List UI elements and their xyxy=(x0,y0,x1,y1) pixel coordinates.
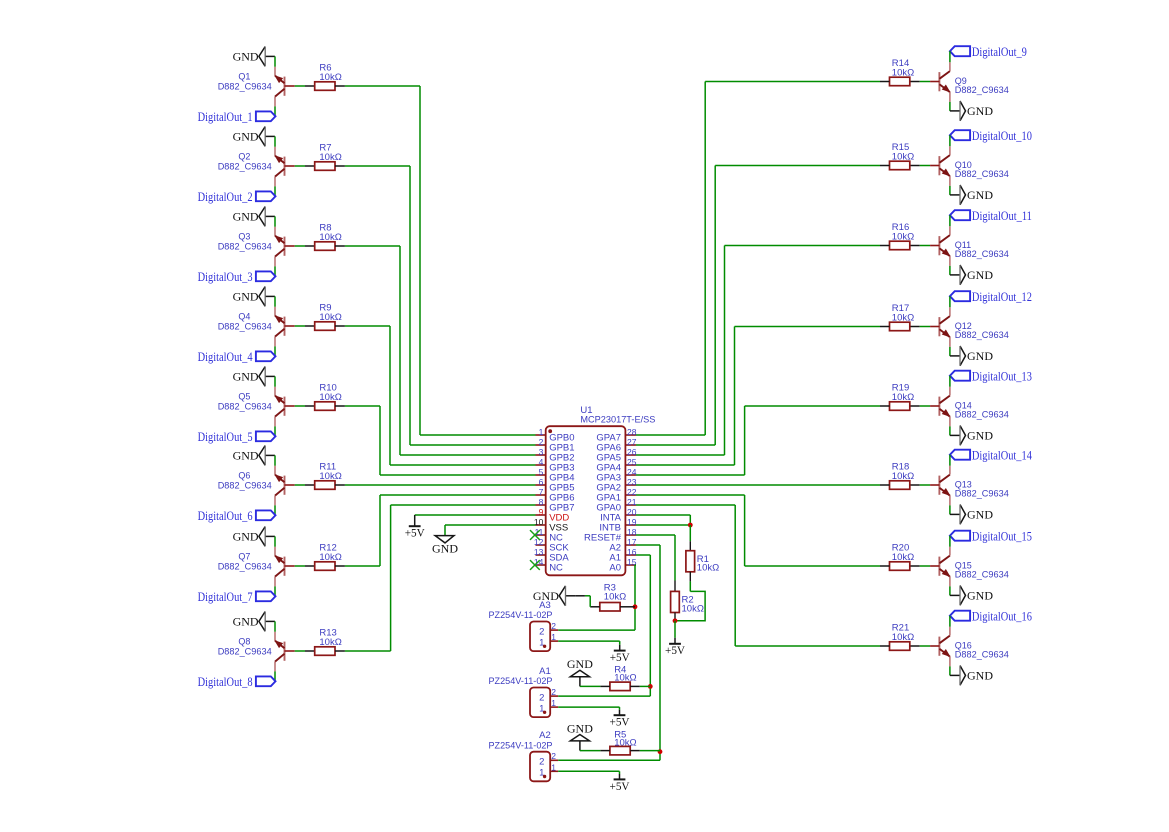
svg-text:GND: GND xyxy=(233,449,259,463)
svg-text:D882_C9634: D882_C9634 xyxy=(218,81,272,92)
svg-text:GND: GND xyxy=(967,429,993,443)
svg-text:16: 16 xyxy=(627,547,637,557)
svg-text:D882_C9634: D882_C9634 xyxy=(218,561,272,572)
svg-text:10kΩ: 10kΩ xyxy=(682,603,704,614)
svg-text:10kΩ: 10kΩ xyxy=(892,632,914,643)
svg-text:Q3: Q3 xyxy=(238,232,250,242)
svg-text:Q8: Q8 xyxy=(238,637,250,647)
svg-text:+5V: +5V xyxy=(665,643,685,657)
svg-text:Q1: Q1 xyxy=(238,72,250,82)
svg-text:26: 26 xyxy=(627,447,637,457)
svg-text:17: 17 xyxy=(627,537,637,547)
svg-text:+5V: +5V xyxy=(405,526,425,540)
svg-text:MCP23017T-E/SS: MCP23017T-E/SS xyxy=(580,414,655,425)
svg-text:+5V: +5V xyxy=(610,715,630,729)
svg-text:D882_C9634: D882_C9634 xyxy=(218,321,272,332)
svg-text:D882_C9634: D882_C9634 xyxy=(955,249,1009,260)
svg-text:GND: GND xyxy=(233,50,259,64)
svg-text:2: 2 xyxy=(551,687,556,697)
svg-text:DigitalOut_2: DigitalOut_2 xyxy=(198,189,253,204)
svg-text:+5V: +5V xyxy=(610,650,630,664)
svg-text:10kΩ: 10kΩ xyxy=(319,637,341,648)
svg-text:1: 1 xyxy=(539,427,544,437)
svg-text:10kΩ: 10kΩ xyxy=(892,152,914,163)
svg-text:D882_C9634: D882_C9634 xyxy=(218,646,272,657)
svg-text:DigitalOut_8: DigitalOut_8 xyxy=(198,674,253,689)
svg-text:DigitalOut_3: DigitalOut_3 xyxy=(198,269,253,284)
svg-text:10kΩ: 10kΩ xyxy=(604,591,626,602)
svg-text:6: 6 xyxy=(539,477,544,487)
svg-text:D882_C9634: D882_C9634 xyxy=(218,241,272,252)
svg-text:10kΩ: 10kΩ xyxy=(892,313,914,324)
svg-text:10kΩ: 10kΩ xyxy=(319,232,341,243)
svg-text:2: 2 xyxy=(539,437,544,447)
svg-text:19: 19 xyxy=(627,517,637,527)
svg-text:D882_C9634: D882_C9634 xyxy=(955,569,1009,580)
svg-text:DigitalOut_6: DigitalOut_6 xyxy=(198,508,253,523)
svg-text:10kΩ: 10kΩ xyxy=(319,552,341,563)
svg-text:4: 4 xyxy=(539,457,544,467)
svg-text:GND: GND xyxy=(967,508,993,522)
svg-text:D882_C9634: D882_C9634 xyxy=(955,488,1009,499)
svg-text:D882_C9634: D882_C9634 xyxy=(955,85,1009,96)
svg-text:1: 1 xyxy=(551,632,556,642)
svg-text:DigitalOut_15: DigitalOut_15 xyxy=(972,528,1032,543)
svg-text:DigitalOut_12: DigitalOut_12 xyxy=(972,289,1032,304)
svg-text:GND: GND xyxy=(233,210,259,224)
svg-text:GND: GND xyxy=(967,104,993,118)
svg-text:10kΩ: 10kΩ xyxy=(319,72,341,83)
svg-text:23: 23 xyxy=(627,477,637,487)
svg-text:DigitalOut_16: DigitalOut_16 xyxy=(972,608,1032,623)
svg-text:25: 25 xyxy=(627,457,637,467)
svg-text:10kΩ: 10kΩ xyxy=(892,471,914,482)
svg-text:DigitalOut_5: DigitalOut_5 xyxy=(198,429,253,444)
svg-text:GND: GND xyxy=(233,130,259,144)
svg-text:2: 2 xyxy=(539,626,544,637)
svg-text:Q6: Q6 xyxy=(238,471,250,481)
svg-text:Q2: Q2 xyxy=(238,152,250,162)
svg-text:10kΩ: 10kΩ xyxy=(319,392,341,403)
svg-text:DigitalOut_1: DigitalOut_1 xyxy=(198,109,253,124)
svg-text:D882_C9634: D882_C9634 xyxy=(218,401,272,412)
svg-text:GND: GND xyxy=(233,615,259,629)
svg-text:2: 2 xyxy=(551,751,556,761)
svg-text:D882_C9634: D882_C9634 xyxy=(955,409,1009,420)
svg-text:GND: GND xyxy=(967,589,993,603)
svg-text:PZ254V-11-02P: PZ254V-11-02P xyxy=(489,740,553,751)
svg-text:Q4: Q4 xyxy=(238,312,250,322)
svg-text:2: 2 xyxy=(551,621,556,631)
svg-text:18: 18 xyxy=(627,527,637,537)
svg-text:DigitalOut_14: DigitalOut_14 xyxy=(972,447,1032,462)
svg-text:10kΩ: 10kΩ xyxy=(614,673,636,684)
svg-text:PZ254V-11-02P: PZ254V-11-02P xyxy=(489,610,553,621)
svg-text:D882_C9634: D882_C9634 xyxy=(955,330,1009,341)
svg-text:27: 27 xyxy=(627,437,637,447)
svg-text:D882_C9634: D882_C9634 xyxy=(955,649,1009,660)
svg-text:2: 2 xyxy=(539,692,544,703)
svg-text:DigitalOut_9: DigitalOut_9 xyxy=(972,44,1027,59)
svg-text:GND: GND xyxy=(967,188,993,202)
svg-text:PZ254V-11-02P: PZ254V-11-02P xyxy=(489,676,553,687)
svg-text:21: 21 xyxy=(627,497,637,507)
svg-text:10kΩ: 10kΩ xyxy=(319,471,341,482)
svg-text:28: 28 xyxy=(627,427,637,437)
svg-text:1: 1 xyxy=(551,698,556,708)
svg-text:1: 1 xyxy=(551,762,556,772)
svg-text:GND: GND xyxy=(967,268,993,282)
svg-text:DigitalOut_7: DigitalOut_7 xyxy=(198,589,253,604)
svg-text:GND: GND xyxy=(233,530,259,544)
svg-text:10kΩ: 10kΩ xyxy=(892,68,914,79)
svg-text:10kΩ: 10kΩ xyxy=(319,152,341,163)
svg-text:DigitalOut_11: DigitalOut_11 xyxy=(972,208,1032,223)
svg-text:5: 5 xyxy=(539,467,544,477)
svg-text:8: 8 xyxy=(539,497,544,507)
svg-text:GND: GND xyxy=(233,370,259,384)
svg-text:10kΩ: 10kΩ xyxy=(614,738,636,749)
svg-text:24: 24 xyxy=(627,467,637,477)
svg-text:GND: GND xyxy=(967,669,993,683)
svg-text:Q7: Q7 xyxy=(238,552,250,562)
svg-text:GND: GND xyxy=(432,541,458,555)
svg-text:7: 7 xyxy=(539,487,544,497)
svg-text:10kΩ: 10kΩ xyxy=(697,563,719,574)
svg-text:DigitalOut_4: DigitalOut_4 xyxy=(198,349,253,364)
svg-text:GND: GND xyxy=(567,657,593,671)
svg-text:GND: GND xyxy=(233,290,259,304)
svg-text:D882_C9634: D882_C9634 xyxy=(218,480,272,491)
svg-text:NC: NC xyxy=(549,562,563,573)
svg-text:Q5: Q5 xyxy=(238,392,250,402)
svg-text:A0: A0 xyxy=(609,562,621,573)
svg-text:GND: GND xyxy=(567,721,593,735)
svg-text:22: 22 xyxy=(627,487,637,497)
svg-text:DigitalOut_13: DigitalOut_13 xyxy=(972,368,1032,383)
svg-text:GND: GND xyxy=(967,349,993,363)
svg-text:3: 3 xyxy=(539,447,544,457)
svg-text:D882_C9634: D882_C9634 xyxy=(218,161,272,172)
svg-text:2: 2 xyxy=(539,757,544,768)
svg-text:D882_C9634: D882_C9634 xyxy=(955,169,1009,180)
svg-text:+5V: +5V xyxy=(610,779,630,793)
svg-text:20: 20 xyxy=(627,507,637,517)
svg-text:10kΩ: 10kΩ xyxy=(319,312,341,323)
svg-text:10kΩ: 10kΩ xyxy=(892,392,914,403)
svg-text:13: 13 xyxy=(534,547,544,557)
svg-text:10kΩ: 10kΩ xyxy=(892,552,914,563)
svg-text:10kΩ: 10kΩ xyxy=(892,232,914,243)
svg-text:DigitalOut_10: DigitalOut_10 xyxy=(972,128,1032,143)
svg-text:9: 9 xyxy=(539,507,544,517)
